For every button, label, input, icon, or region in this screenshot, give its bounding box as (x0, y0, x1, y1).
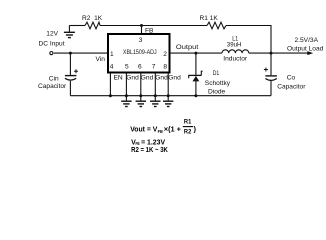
svg-text:8: 8 (163, 64, 167, 71)
ground (pin6) (136, 101, 146, 106)
label formula Vfb (131, 140, 165, 147)
capacitor Cin (65, 53, 78, 96)
svg-text:Vout = V: Vout = V (130, 126, 158, 133)
wire output arrow (271, 51, 313, 55)
label FB (145, 28, 154, 35)
svg-text:12V: 12V (46, 31, 58, 38)
input terminal (50, 52, 53, 55)
node D1 bottom junction (194, 94, 197, 97)
wire pin2 output to inductor (170, 52, 222, 54)
svg-text:R1 1K: R1 1K (200, 15, 219, 22)
diode D1 schottky (188, 53, 202, 96)
node pin8 rail junction (167, 94, 170, 97)
svg-text:Capacitor: Capacitor (277, 83, 306, 90)
wire FB rail middle segment (100, 25, 207, 27)
svg-text:Vin: Vin (96, 56, 106, 63)
ground (pin7) (150, 101, 160, 106)
ground (left of R2) (64, 26, 75, 38)
svg-text:Cin: Cin (49, 75, 59, 82)
svg-text:= 1.23V: = 1.23V (141, 140, 165, 147)
resistor R2 (82, 15, 103, 29)
wire pin3 stub (141, 26, 143, 35)
svg-text:FB: FB (158, 129, 164, 134)
op-amp U1 XBL1509-ADJ regulator box (108, 34, 170, 73)
svg-text:Inductor: Inductor (223, 56, 248, 63)
wire pin7 gnd (154, 73, 156, 101)
svg-text:Gnd: Gnd (126, 75, 139, 82)
svg-text:Gnd: Gnd (155, 75, 168, 82)
svg-text:R1: R1 (184, 118, 192, 125)
wire FB rail right segment to corner (226, 26, 271, 54)
node input/Cin junction (69, 52, 72, 55)
label 12V DC Input (39, 31, 65, 48)
svg-text:6: 6 (138, 64, 142, 71)
wire EN pin4 to ground rail (109, 73, 111, 96)
svg-text:Capacitor: Capacitor (38, 83, 67, 90)
node FB junction (140, 24, 143, 27)
svg-text:Output: Output (176, 44, 199, 51)
svg-text:1: 1 (110, 51, 114, 58)
svg-text:R2 = 1K ~ 3K: R2 = 1K ~ 3K (131, 147, 168, 154)
svg-text:2.5V/3A: 2.5V/3A (295, 37, 319, 44)
svg-text:Output Load: Output Load (287, 46, 324, 53)
svg-text:R2: R2 (184, 128, 192, 135)
label 2.5V/3A Output Load (287, 37, 324, 53)
node D1 top junction (194, 52, 197, 55)
svg-text:39uH: 39uH (227, 41, 242, 48)
wire pin8 gnd (167, 73, 169, 101)
wire inductor to output node (249, 52, 271, 54)
label D1 Schottky Diode (205, 70, 231, 96)
ground (pin5) (121, 101, 131, 106)
svg-text:XBL1509-ADJ: XBL1509-ADJ (123, 49, 157, 56)
svg-text:DC Input: DC Input (39, 40, 65, 47)
label Cin Capacitor (38, 75, 67, 90)
svg-text:R2 1K: R2 1K (82, 15, 103, 22)
node output junction (270, 52, 273, 55)
svg-text:Diode: Diode (208, 88, 226, 95)
svg-text:Gnd: Gnd (141, 75, 154, 82)
svg-text:3: 3 (139, 37, 143, 44)
node pin7 rail junction (154, 94, 157, 97)
svg-text:5: 5 (125, 64, 129, 71)
ground (pin8) (163, 101, 173, 106)
resistor R1 (200, 15, 227, 29)
label formula Vout (130, 118, 196, 135)
svg-text:D1: D1 (213, 70, 220, 77)
inductor L1 (222, 35, 249, 62)
wire ground rail (70, 95, 271, 97)
wire input to Vin (54, 52, 108, 54)
label formula R2 range (131, 147, 168, 154)
label Output (176, 44, 199, 51)
wire FB rail left segment (69, 25, 85, 27)
node pin6 rail junction (139, 94, 142, 97)
node EN rail junction (109, 94, 112, 97)
svg-text:Schottky: Schottky (205, 80, 231, 87)
label Vin (96, 56, 106, 63)
wire pin5 gnd (125, 73, 127, 101)
svg-text:×(1 +: ×(1 + (164, 126, 181, 133)
wire pin6 gnd (140, 73, 142, 101)
node pin5 rail junction (125, 94, 128, 97)
label EN Gnd Gnd Gnd Gnd (114, 75, 182, 82)
svg-text:2: 2 (163, 51, 167, 58)
svg-text:Co: Co (287, 75, 296, 82)
svg-text:7: 7 (152, 64, 156, 71)
svg-text:EN: EN (114, 75, 123, 82)
svg-text:4: 4 (110, 64, 114, 71)
capacitor Co (264, 53, 277, 96)
svg-text:FB: FB (136, 141, 140, 146)
label Co Capacitor (277, 75, 306, 91)
svg-text:Gnd: Gnd (168, 75, 181, 82)
